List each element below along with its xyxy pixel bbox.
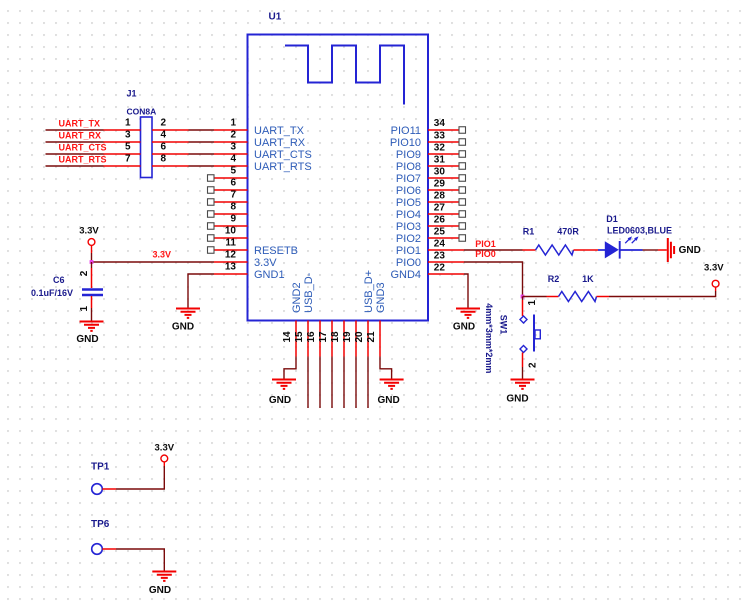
wire net UART_TX to U1 bbox=[189, 129, 215, 131]
svg-text:PIO3: PIO3 bbox=[396, 221, 421, 233]
svg-text:1K: 1K bbox=[582, 274, 594, 284]
svg-text:3.3V: 3.3V bbox=[153, 249, 172, 259]
svg-text:3: 3 bbox=[230, 142, 236, 153]
no-connect square U1 pin 24 bbox=[459, 235, 466, 242]
svg-text:9: 9 bbox=[230, 214, 236, 225]
svg-text:27: 27 bbox=[434, 203, 446, 214]
svg-text:3.3V: 3.3V bbox=[704, 262, 724, 273]
svg-text:USB_D-: USB_D- bbox=[303, 272, 315, 313]
svg-text:4: 4 bbox=[161, 130, 167, 141]
U1 pin 2 bbox=[214, 141, 248, 143]
svg-text:19: 19 bbox=[342, 331, 353, 343]
svg-text:PIO11: PIO11 bbox=[391, 125, 421, 137]
svg-text:32: 32 bbox=[434, 143, 446, 154]
svg-text:PIO0: PIO0 bbox=[475, 249, 496, 259]
svg-text:5: 5 bbox=[230, 166, 236, 177]
svg-text:GND: GND bbox=[149, 585, 171, 596]
J1 pin 2 bbox=[152, 129, 189, 131]
svg-text:22: 22 bbox=[434, 263, 446, 274]
ground at U1 GND1 bbox=[176, 309, 200, 318]
U1 pin 4 bbox=[214, 165, 248, 167]
J1 pin 3 bbox=[104, 141, 141, 143]
no-connect square U1 pin 5 bbox=[208, 175, 215, 182]
svg-text:UART_TX: UART_TX bbox=[59, 119, 101, 129]
svg-text:16: 16 bbox=[306, 331, 317, 343]
svg-text:11: 11 bbox=[225, 238, 236, 249]
U1 pin 1 bbox=[214, 129, 248, 131]
svg-text:34: 34 bbox=[434, 118, 446, 129]
U1 pin 15 bbox=[307, 321, 309, 357]
ground below TP6 bbox=[152, 572, 176, 581]
ground below SW1 bbox=[511, 380, 535, 389]
svg-text:7: 7 bbox=[230, 190, 236, 201]
svg-text:28: 28 bbox=[434, 191, 446, 202]
U1 pin 8 bbox=[214, 213, 248, 215]
wire C6 to ground bbox=[91, 308, 93, 322]
J1 pin 4 bbox=[152, 141, 189, 143]
J1 pin 5 bbox=[104, 153, 141, 155]
J1 pin 7 bbox=[104, 165, 141, 167]
svg-text:2: 2 bbox=[528, 362, 539, 368]
wire net UART_CTS left segment bbox=[46, 153, 104, 155]
resistor R2 bbox=[547, 296, 559, 298]
svg-text:PIO1: PIO1 bbox=[475, 239, 496, 249]
no-connect square U1 pin 7 bbox=[208, 199, 215, 206]
wire U1 pin 19 stub bbox=[355, 357, 357, 409]
svg-text:UART_RX: UART_RX bbox=[254, 137, 306, 149]
svg-text:GND: GND bbox=[506, 394, 528, 405]
svg-text:GND: GND bbox=[76, 334, 98, 345]
no-connect square U1 pin 33 bbox=[459, 127, 466, 134]
svg-text:33: 33 bbox=[434, 131, 446, 142]
power port 3.3V (R2) bbox=[715, 287, 717, 291]
bar-style ground at D1 bbox=[668, 238, 674, 262]
wire U1 pin 21 to ground bbox=[380, 357, 392, 380]
svg-text:1: 1 bbox=[79, 306, 90, 312]
svg-text:470R: 470R bbox=[557, 227, 579, 237]
no-connect square U1 pin 29 bbox=[459, 175, 466, 182]
U1 pin PIO0 bbox=[428, 261, 464, 263]
ground below U1 pin 21 bbox=[380, 380, 404, 389]
op-amp/IC U1 body bbox=[248, 35, 429, 321]
C6 pin 2 number bbox=[79, 270, 90, 276]
wire net UART_RTS to U1 bbox=[189, 165, 215, 167]
svg-text:8: 8 bbox=[230, 202, 236, 213]
no-connect square U1 pin 10 bbox=[208, 235, 215, 242]
svg-text:GND2: GND2 bbox=[291, 282, 303, 313]
svg-text:UART_TX: UART_TX bbox=[254, 125, 305, 137]
wire U1 pin 14 to ground bbox=[284, 357, 296, 380]
svg-text:TP1: TP1 bbox=[91, 462, 110, 473]
wire net UART_RX to U1 bbox=[189, 141, 215, 143]
svg-text:2: 2 bbox=[161, 118, 167, 129]
J1 pin 6 bbox=[152, 153, 189, 155]
svg-text:SW1: SW1 bbox=[499, 315, 509, 335]
svg-text:1: 1 bbox=[527, 300, 538, 306]
svg-text:17: 17 bbox=[318, 331, 329, 343]
svg-text:4mm*3mm*2mm: 4mm*3mm*2mm bbox=[484, 303, 494, 373]
svg-text:21: 21 bbox=[366, 331, 377, 343]
wire 3.3V port to junction bbox=[91, 253, 93, 262]
wire U1 pin 15 stub bbox=[307, 357, 309, 409]
svg-text:UART_RTS: UART_RTS bbox=[59, 155, 107, 165]
no-connect square U1 pin 9 bbox=[208, 223, 215, 230]
svg-text:8: 8 bbox=[161, 154, 167, 165]
wire TP1 to 3.3V bbox=[116, 466, 164, 489]
U1 antenna meander graphic bbox=[285, 46, 404, 105]
svg-text:GND: GND bbox=[377, 395, 399, 406]
U1 pin PIO5 bbox=[428, 201, 464, 203]
wire R2 to 3.3V port bbox=[609, 291, 716, 297]
no-connect square U1 pin 11 bbox=[208, 247, 215, 254]
svg-text:PIO4: PIO4 bbox=[396, 209, 421, 221]
switch SW1 pushbutton bbox=[522, 300, 524, 316]
svg-text:1: 1 bbox=[125, 118, 131, 129]
svg-text:UART_CTS: UART_CTS bbox=[59, 143, 107, 153]
svg-text:R2: R2 bbox=[548, 274, 560, 284]
D1 cathode pin bbox=[643, 249, 659, 251]
no-connect square U1 pin 8 bbox=[208, 211, 215, 218]
svg-text:7: 7 bbox=[125, 154, 131, 165]
wire junction to R2 bbox=[523, 296, 547, 298]
U1 pin PIO1 bbox=[428, 249, 464, 251]
J1 pin 1 bbox=[104, 129, 141, 131]
U1 pin PIO6 bbox=[428, 189, 464, 191]
svg-text:D1: D1 bbox=[606, 214, 618, 224]
U1 pin 3 bbox=[214, 153, 248, 155]
svg-text:12: 12 bbox=[225, 250, 237, 261]
U1 pin 12 bbox=[214, 261, 248, 263]
wire net UART_TX left segment bbox=[46, 129, 104, 131]
svg-text:PIO7: PIO7 bbox=[396, 173, 421, 185]
wire net PIO1 bbox=[464, 249, 523, 251]
SW1 designator label bbox=[499, 315, 509, 335]
ground below U1 pin 14 bbox=[272, 380, 296, 389]
no-connect square U1 pin 31 bbox=[459, 151, 466, 158]
svg-text:LED0603,BLUE: LED0603,BLUE bbox=[607, 226, 672, 236]
wire net UART_RTS left segment bbox=[46, 165, 104, 167]
svg-text:1: 1 bbox=[230, 118, 236, 129]
junction PIO0/R2/SW1 bbox=[521, 295, 525, 299]
ground at U1 GND4 bbox=[456, 309, 480, 318]
svg-text:GND1: GND1 bbox=[254, 269, 285, 281]
svg-text:PIO8: PIO8 bbox=[396, 161, 421, 173]
no-connect square U1 pin 6 bbox=[208, 187, 215, 194]
svg-text:GND: GND bbox=[453, 322, 475, 333]
U1 pin 14 bbox=[295, 321, 297, 357]
svg-text:PIO10: PIO10 bbox=[390, 137, 421, 149]
svg-text:TP6: TP6 bbox=[91, 519, 110, 530]
U1 pin PIO2 bbox=[428, 237, 464, 239]
svg-text:10: 10 bbox=[225, 226, 237, 237]
wire U1 pin 18 stub bbox=[343, 357, 345, 409]
U1 pin 7 bbox=[214, 201, 248, 203]
wire 3.3V rail to U1 pin 12 bbox=[92, 261, 215, 263]
U1 pin 9 bbox=[214, 225, 248, 227]
svg-text:GND: GND bbox=[269, 395, 291, 406]
wire D1 to bar ground bbox=[658, 249, 667, 251]
no-connect square U1 pin 28 bbox=[459, 187, 466, 194]
diode D1 LED bbox=[585, 249, 598, 251]
svg-text:PIO5: PIO5 bbox=[396, 197, 421, 209]
svg-text:24: 24 bbox=[434, 239, 446, 250]
svg-text:RESETB: RESETB bbox=[254, 245, 298, 257]
svg-text:U1: U1 bbox=[269, 12, 282, 23]
U1 pin 20 bbox=[367, 321, 369, 357]
svg-text:13: 13 bbox=[225, 262, 237, 273]
svg-text:14: 14 bbox=[282, 331, 293, 343]
svg-text:18: 18 bbox=[330, 331, 341, 343]
svg-text:USB_D+: USB_D+ bbox=[363, 270, 375, 313]
svg-text:20: 20 bbox=[354, 331, 365, 343]
svg-text:GND: GND bbox=[172, 322, 194, 333]
svg-text:25: 25 bbox=[434, 227, 446, 238]
U1 pin 6 bbox=[214, 189, 248, 191]
U1 pin 18 bbox=[343, 321, 345, 357]
svg-text:31: 31 bbox=[434, 155, 446, 166]
svg-text:6: 6 bbox=[161, 142, 167, 153]
svg-text:C6: C6 bbox=[53, 275, 65, 285]
U1 pin PIO11 bbox=[428, 129, 464, 131]
svg-text:3.3V: 3.3V bbox=[254, 257, 277, 269]
wire junction to SW1 bbox=[522, 297, 524, 301]
svg-text:0.1uF/16V: 0.1uF/16V bbox=[31, 288, 73, 298]
svg-text:GND3: GND3 bbox=[375, 282, 387, 313]
U1 pin PIO10 bbox=[428, 141, 464, 143]
svg-text:PIO9: PIO9 bbox=[396, 149, 421, 161]
svg-text:UART_RX: UART_RX bbox=[59, 131, 102, 141]
wire U1 pin 20 stub bbox=[367, 357, 369, 409]
svg-text:UART_CTS: UART_CTS bbox=[254, 149, 312, 161]
svg-text:PIO2: PIO2 bbox=[396, 233, 421, 245]
svg-text:GND: GND bbox=[679, 245, 701, 256]
svg-text:UART_RTS: UART_RTS bbox=[254, 161, 312, 173]
SW1 value label 4mm*3mm*2mm bbox=[484, 303, 494, 373]
svg-text:15: 15 bbox=[294, 331, 305, 343]
J1 pin 8 bbox=[152, 165, 189, 167]
svg-text:23: 23 bbox=[434, 251, 446, 262]
C6 pin 1 number bbox=[79, 306, 90, 312]
U1 pin 5 bbox=[214, 177, 248, 179]
svg-text:3: 3 bbox=[125, 130, 131, 141]
U1 pin 16 bbox=[319, 321, 321, 357]
U1 pin PIO3 bbox=[428, 225, 464, 227]
svg-text:GND4: GND4 bbox=[390, 269, 421, 281]
U1 pin GND4 bbox=[428, 273, 464, 275]
resistor R1 bbox=[523, 249, 536, 251]
svg-text:26: 26 bbox=[434, 215, 446, 226]
no-connect square U1 pin 26 bbox=[459, 211, 466, 218]
U1 pin PIO9 bbox=[428, 153, 464, 155]
U1 pin 10 bbox=[214, 237, 248, 239]
wire SW1 to ground bbox=[522, 367, 524, 380]
connector J1 CON8A bbox=[141, 117, 153, 178]
wire net UART_CTS to U1 bbox=[189, 153, 215, 155]
svg-text:PIO6: PIO6 bbox=[396, 185, 421, 197]
svg-text:PIO1: PIO1 bbox=[396, 245, 421, 257]
no-connect square U1 pin 27 bbox=[459, 199, 466, 206]
wire net UART_RX left segment bbox=[46, 141, 104, 143]
no-connect square U1 pin 25 bbox=[459, 223, 466, 230]
ground below C6 bbox=[80, 322, 104, 331]
wire U1 GND4 to ground bbox=[464, 274, 468, 309]
no-connect square U1 pin 32 bbox=[459, 139, 466, 146]
wire U1 pin 17 stub bbox=[331, 357, 333, 409]
svg-text:2: 2 bbox=[79, 270, 90, 276]
svg-text:30: 30 bbox=[434, 167, 446, 178]
svg-text:PIO0: PIO0 bbox=[396, 257, 421, 269]
U1 pin 21 bbox=[379, 321, 381, 357]
svg-text:2: 2 bbox=[230, 130, 236, 141]
capacitor C6 bbox=[91, 262, 93, 268]
U1 pin 11 bbox=[214, 249, 248, 251]
U1 pin 19 bbox=[355, 321, 357, 357]
svg-text:29: 29 bbox=[434, 179, 446, 190]
U1 pin PIO8 bbox=[428, 165, 464, 167]
U1 pin 17 bbox=[331, 321, 333, 357]
wire U1 pin 16 stub bbox=[319, 357, 321, 409]
wire net PIO0 bbox=[464, 262, 523, 297]
svg-text:3.3V: 3.3V bbox=[155, 443, 175, 454]
no-connect square U1 pin 30 bbox=[459, 163, 466, 170]
svg-text:R1: R1 bbox=[523, 227, 535, 237]
wire U1 pin 13 to ground bbox=[188, 274, 214, 309]
U1 pin PIO4 bbox=[428, 213, 464, 215]
U1 pin 13 bbox=[214, 273, 248, 275]
svg-text:CON8A: CON8A bbox=[127, 107, 157, 117]
svg-text:4: 4 bbox=[230, 154, 236, 165]
svg-text:5: 5 bbox=[125, 142, 131, 153]
U1 pin PIO7 bbox=[428, 177, 464, 179]
junction at 3.3V/C6 node bbox=[90, 260, 94, 264]
svg-text:3.3V: 3.3V bbox=[79, 226, 99, 237]
svg-text:6: 6 bbox=[230, 178, 236, 189]
svg-text:J1: J1 bbox=[127, 89, 137, 99]
wire TP6 to ground bbox=[116, 549, 164, 572]
